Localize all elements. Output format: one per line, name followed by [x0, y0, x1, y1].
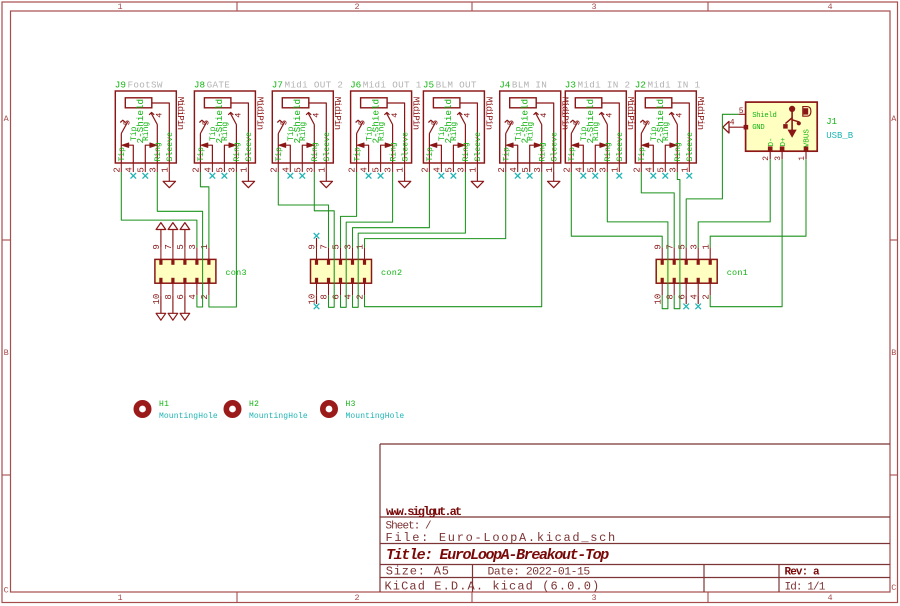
svg-text:3: 3 [457, 167, 467, 172]
wire J9 pin2 to con3 pin3 [121, 172, 197, 248]
frame column ticks bottom [236, 592, 238, 603]
svg-text:2: 2 [354, 593, 359, 603]
J8 no-connect pin 4 [210, 173, 216, 179]
J2 ring contact lever pin 3 [676, 125, 678, 163]
svg-text:1: 1 [396, 167, 406, 172]
svg-text:2: 2 [112, 167, 122, 172]
svg-text:Ring: Ring [154, 142, 163, 161]
svg-text:MountingHole: MountingHole [249, 412, 308, 421]
svg-text:Ring: Ring [674, 142, 683, 161]
connector J3 MidiPin (Midi IN 2) body [565, 91, 626, 163]
J6 ring contact lever pin 3 [392, 125, 394, 163]
wire J4 pin2 to con2 pin1 [365, 172, 506, 248]
J1 pin 5 Shield lead [739, 113, 746, 115]
ground symbol at J8 pin 1 [247, 172, 249, 181]
svg-text:MidiPin: MidiPin [625, 97, 636, 130]
svg-text:4: 4 [390, 113, 400, 118]
svg-text:4: 4 [509, 167, 519, 172]
con1 pin nubs [661, 259, 664, 264]
svg-text:J8: J8 [194, 80, 205, 91]
svg-text:5: 5 [656, 167, 666, 172]
con3 pin nubs [159, 259, 162, 264]
connector J2 MidiPin (Midi IN 1) body [635, 91, 696, 163]
con3 open-ended top pins 9 7 5 [160, 230, 162, 248]
svg-text:Sleeve: Sleeve [244, 132, 254, 162]
svg-text:MidiPin: MidiPin [175, 97, 186, 130]
con1 bottom pin stubs [661, 283, 663, 295]
J8 no-connect pin 5 [222, 173, 228, 179]
svg-text:con1: con1 [727, 268, 748, 278]
svg-text:GATE: GATE [207, 80, 231, 91]
svg-text:Id: 1/1: Id: 1/1 [785, 581, 826, 593]
J5 no-connect pin 4 [439, 173, 445, 179]
svg-text:MountingHole: MountingHole [346, 412, 405, 421]
svg-text:4: 4 [281, 167, 291, 172]
J2 sleeve internal wire pin 1 [672, 103, 689, 163]
J6 ring switch arm pin 5 [381, 145, 386, 162]
svg-text:Title: EuroLoopA-Breakout-Top: Title: EuroLoopA-Breakout-Top [386, 547, 609, 564]
svg-text:5: 5 [445, 167, 455, 172]
svg-text:C: C [4, 586, 9, 596]
J1 USB-B plug icon [803, 107, 811, 117]
wire J7 pin3 to con2 pin8 [314, 172, 334, 307]
J5 tip contact lever pin 2 [428, 134, 430, 163]
svg-text:GND: GND [752, 124, 764, 132]
ground symbol at J7 pin 1 [325, 172, 327, 181]
svg-text:2: 2 [562, 167, 572, 172]
svg-text:Tip: Tip [353, 147, 362, 162]
svg-text:Tip: Tip [426, 147, 435, 162]
svg-text:A: A [4, 114, 10, 124]
J5 tip switch arm pin 4 [436, 145, 441, 162]
svg-text:File: Euro-LoopA.kicad_sch: File: Euro-LoopA.kicad_sch [386, 531, 617, 545]
svg-text:J3: J3 [565, 80, 576, 91]
svg-text:4: 4 [730, 119, 735, 128]
svg-text:Ring: Ring [450, 122, 459, 141]
svg-text:5: 5 [216, 167, 226, 172]
con2 bottom pin stubs [316, 283, 318, 295]
svg-text:Midi IN 1: Midi IN 1 [648, 80, 701, 91]
svg-text:1: 1 [160, 167, 170, 172]
svg-text:4: 4 [605, 113, 615, 118]
con2 no-connect pin 9 [314, 233, 320, 239]
con2 pin nubs [315, 259, 318, 264]
J3 pin stubs [570, 163, 572, 172]
con1 top pin stubs [661, 248, 663, 260]
wire J3 pin3 to con1 pin10 [607, 172, 668, 309]
svg-text:A: A [891, 114, 897, 124]
svg-text:4: 4 [463, 113, 473, 118]
svg-text:J5: J5 [423, 80, 434, 91]
J5 pin stubs [428, 163, 430, 172]
ground symbol at J5 pin 1 [476, 172, 478, 181]
svg-text:5: 5 [279, 120, 289, 125]
svg-text:4: 4 [574, 167, 584, 172]
J7 ring contact lever pin 3 [313, 125, 315, 163]
svg-text:4: 4 [124, 167, 134, 172]
svg-text:MidiPin: MidiPin [695, 97, 706, 130]
J8 sleeve internal wire pin 1 [231, 103, 248, 163]
svg-text:Ring: Ring [604, 142, 613, 161]
svg-text:5: 5 [507, 120, 517, 125]
svg-text:5: 5 [122, 120, 132, 125]
svg-text:1: 1 [117, 593, 122, 603]
svg-text:1: 1 [610, 167, 620, 172]
svg-text:3: 3 [384, 167, 394, 172]
svg-text:Sleeve: Sleeve [685, 132, 695, 162]
J2 no-connect pin 5 [663, 173, 669, 179]
svg-text:H2: H2 [249, 400, 259, 409]
connector J6 MidiPin (Midi OUT 1) body [351, 91, 412, 163]
svg-text:4: 4 [644, 167, 654, 172]
svg-text:Shield: Shield [752, 112, 776, 120]
wire J1 D- to con1 pin3 [698, 159, 770, 247]
J3 ring contact lever pin 3 [606, 125, 608, 163]
svg-text:USB_B: USB_B [826, 131, 854, 141]
svg-text:J9: J9 [115, 80, 126, 91]
svg-text:www.siglgut.at: www.siglgut.at [386, 505, 462, 519]
con1 no-connect pin 6 [683, 304, 689, 310]
wire J1 Shield to con1 pin5 [686, 114, 738, 247]
J3 ring switch arm pin 5 [595, 145, 600, 162]
wire J4 pin3 to con2 pin2 [365, 172, 542, 307]
ground symbol at J4 pin 1 [553, 172, 555, 181]
wire J6 pin3 to con2 pin6 [341, 172, 393, 307]
wire J3 pin2 to con1 pin9 [571, 172, 662, 248]
svg-text:J1: J1 [826, 117, 837, 127]
connector con3 body [155, 259, 216, 283]
svg-text:MidiPin: MidiPin [254, 97, 265, 130]
svg-text:J7: J7 [272, 80, 283, 91]
svg-text:Ring: Ring [662, 122, 671, 141]
connector J9 MidiPin (FootSW) body [115, 91, 176, 163]
svg-text:4: 4 [312, 113, 322, 118]
svg-text:MidiPin: MidiPin [332, 97, 343, 130]
J6 no-connect pin 5 [378, 173, 384, 179]
svg-text:3: 3 [305, 167, 315, 172]
con3 bottom pin stubs [160, 283, 162, 295]
svg-text:3: 3 [591, 2, 596, 12]
J5 ring switch arm pin 5 [453, 145, 458, 162]
svg-text:4: 4 [539, 113, 549, 118]
svg-text:2: 2 [497, 167, 507, 172]
connector J8 MidiPin (GATE) body [194, 91, 255, 163]
J9 shield bar [125, 98, 152, 108]
svg-text:5: 5 [642, 120, 652, 125]
J8 tip contact lever pin 2 [199, 134, 201, 163]
svg-text:3: 3 [533, 167, 543, 172]
connector J5 MidiPin (BLM OUT) body [423, 91, 484, 163]
J4 tip switch arm pin 4 [513, 145, 518, 162]
mounting hole H3 [323, 403, 335, 415]
J3 no-connect pin 5 [593, 173, 599, 179]
svg-text:Tip: Tip [118, 147, 127, 162]
J4 ring switch arm pin 5 [530, 145, 535, 162]
svg-text:Rev: a: Rev: a [785, 566, 821, 578]
connector J4 MidiPin (BLM IN) body [500, 91, 561, 163]
wire J5 pin3 to con2 pin4 [353, 172, 466, 307]
svg-text:3: 3 [598, 167, 608, 172]
svg-text:2: 2 [632, 167, 642, 172]
svg-text:5: 5 [136, 167, 146, 172]
J7 sleeve internal wire pin 1 [309, 103, 326, 163]
svg-text:3: 3 [228, 167, 238, 172]
svg-text:4: 4 [675, 113, 685, 118]
J3 no-connect pin 1 [617, 173, 623, 179]
svg-text:1: 1 [680, 167, 690, 172]
J6 no-connect pin 4 [366, 173, 372, 179]
svg-text:2: 2 [421, 167, 431, 172]
wire J9 pin3 to con3 pin4 [157, 172, 202, 307]
J7 no-connect pin 5 [300, 173, 306, 179]
ground symbol at J6 pin 1 [404, 172, 406, 181]
frame column ticks top [236, 2, 238, 11]
svg-text:Ring: Ring [377, 122, 386, 141]
svg-text:4: 4 [360, 167, 370, 172]
J6 sleeve internal wire pin 1 [387, 103, 404, 163]
svg-text:Tip: Tip [275, 147, 284, 162]
wire J2 pin3 to con1 pin8 [674, 172, 680, 309]
svg-text:con2: con2 [381, 268, 402, 278]
con3 open-ended bottom pins 10 8 6 [160, 295, 162, 313]
J1 USB trident icon [783, 106, 801, 138]
J2 tip switch arm pin 4 [648, 145, 653, 162]
connector J7 MidiPin (Midi OUT 2) body [272, 91, 333, 163]
svg-text:4: 4 [155, 113, 165, 118]
J6 pin stubs [356, 163, 358, 172]
J4 pin stubs [505, 163, 507, 172]
con1 pin 6 lead [685, 295, 687, 304]
con3 top pin stubs [160, 248, 162, 260]
svg-text:2: 2 [269, 167, 279, 172]
svg-text:Sleeve: Sleeve [322, 132, 332, 162]
J4 no-connect pin 4 [515, 173, 521, 179]
wire J1 D+ to con1 pin2 [710, 159, 782, 307]
J9 pin stubs [120, 163, 122, 172]
svg-text:Sleeve: Sleeve [615, 132, 625, 162]
J6 tip contact lever pin 2 [356, 134, 358, 163]
svg-text:MidiPin: MidiPin [483, 97, 494, 130]
J7 pin stubs [277, 163, 279, 172]
con2 pin 10 lead [316, 295, 318, 304]
svg-text:1: 1 [317, 167, 327, 172]
J7 tip switch arm pin 4 [285, 145, 290, 162]
svg-text:4: 4 [204, 167, 214, 172]
svg-text:MountingHole: MountingHole [159, 412, 218, 421]
J4 sleeve internal wire pin 1 [537, 103, 554, 163]
J4 shield bar [510, 98, 537, 108]
connector J1 USB_B body [746, 102, 818, 151]
svg-text:5: 5 [201, 120, 211, 125]
svg-text:5: 5 [521, 167, 531, 172]
svg-text:5: 5 [586, 167, 596, 172]
title block row lines [380, 516, 890, 518]
title block column lines [472, 565, 474, 593]
svg-text:FootSW: FootSW [128, 80, 163, 91]
svg-text:2: 2 [192, 167, 202, 172]
svg-text:Midi IN 2: Midi IN 2 [578, 80, 631, 91]
svg-text:5: 5 [358, 120, 368, 125]
J7 shield bar [282, 98, 309, 108]
svg-text:D+: D+ [780, 137, 788, 147]
J5 shield bar [433, 98, 460, 108]
wire J2 pin2 to con1 pin7 [641, 172, 674, 248]
svg-text:H3: H3 [346, 400, 356, 409]
frame row ticks right [890, 239, 898, 241]
svg-text:Sleeve: Sleeve [400, 132, 410, 162]
svg-text:3: 3 [591, 593, 596, 603]
J5 ring contact lever pin 3 [464, 125, 466, 163]
svg-text:Ring: Ring [592, 122, 601, 141]
con1 no-connect pin 4 [695, 304, 701, 310]
J9 tip switch arm pin 4 [128, 145, 133, 162]
svg-text:Ring: Ring [221, 122, 230, 141]
J6 shield bar [361, 98, 388, 108]
svg-text:Ring: Ring [233, 142, 242, 161]
mounting hole H2 [226, 403, 238, 415]
svg-text:Tip: Tip [638, 147, 647, 162]
con2 no-connect pin 10 [314, 304, 320, 310]
wire J8 pin3 to con3 pin2 [209, 172, 237, 307]
svg-text:2: 2 [354, 2, 359, 12]
J9 ring contact lever pin 3 [156, 125, 158, 163]
svg-text:Ring: Ring [462, 142, 471, 161]
J3 shield bar [575, 98, 602, 108]
J2 tip contact lever pin 2 [640, 134, 642, 163]
svg-text:J6: J6 [350, 80, 361, 91]
svg-text:B: B [4, 348, 9, 358]
svg-text:J2: J2 [635, 80, 646, 91]
svg-text:4: 4 [827, 593, 832, 603]
svg-text:Ring: Ring [526, 122, 535, 141]
J3 sleeve internal wire pin 1 [602, 103, 619, 163]
J8 ring contact lever pin 3 [235, 125, 237, 163]
J1 pin 4 GND lead with input arrow [729, 126, 746, 128]
J8 ring switch arm pin 5 [224, 145, 229, 162]
J3 tip contact lever pin 2 [570, 134, 572, 163]
con2 top pin stubs [316, 248, 318, 260]
svg-text:3: 3 [668, 167, 678, 172]
J1 bottom pin leads 2 3 1 [769, 151, 771, 159]
svg-text:Sleeve: Sleeve [549, 132, 559, 162]
connector con2 body [311, 259, 372, 283]
J2 no-connect pin 4 [651, 173, 657, 179]
svg-text:Ring: Ring [311, 142, 320, 161]
J9 sleeve internal wire pin 1 [152, 103, 169, 163]
J4 no-connect pin 5 [527, 173, 533, 179]
svg-text:Sleeve: Sleeve [473, 132, 483, 162]
svg-text:B: B [891, 348, 896, 358]
svg-text:Tip: Tip [502, 147, 511, 162]
svg-text:1: 1 [240, 167, 250, 172]
frame row ticks left [2, 239, 11, 241]
J2 shield bar [645, 98, 672, 108]
svg-text:D-: D- [768, 137, 776, 146]
svg-text:Ring: Ring [389, 142, 398, 161]
J7 no-connect pin 4 [288, 173, 294, 179]
J3 no-connect pin 4 [581, 173, 587, 179]
svg-text:Size: A5: Size: A5 [386, 564, 450, 578]
svg-text:5: 5 [430, 120, 440, 125]
svg-text:1: 1 [117, 2, 122, 12]
svg-text:1: 1 [469, 167, 479, 172]
wire J8 pin2 to con3 pin1 [200, 172, 209, 248]
svg-text:4: 4 [433, 167, 443, 172]
ground symbol at J9 pin 1 [168, 172, 170, 181]
J7 ring switch arm pin 5 [302, 145, 307, 162]
mounting hole H1 [136, 403, 148, 415]
J8 tip switch arm pin 4 [207, 145, 212, 162]
connector con1 body [656, 259, 717, 283]
J9 tip contact lever pin 2 [120, 134, 122, 163]
svg-text:MidiPin: MidiPin [411, 97, 422, 130]
svg-text:Midi OUT 2: Midi OUT 2 [285, 80, 344, 91]
J5 no-connect pin 5 [451, 173, 457, 179]
svg-text:KiCad E.D.A. kicad (6.0.0): KiCad E.D.A. kicad (6.0.0) [385, 579, 601, 593]
svg-text:5: 5 [372, 167, 382, 172]
svg-text:VBUS: VBUS [804, 129, 812, 148]
svg-text:Midi OUT 1: Midi OUT 1 [363, 80, 422, 91]
J8 pin stubs [199, 163, 201, 172]
J6 tip switch arm pin 4 [364, 145, 369, 162]
wire J6 pin2 to con2 pin5 [341, 172, 357, 248]
J9 no-connect pin 4 [131, 173, 137, 179]
J9 ring switch arm pin 5 [145, 145, 150, 162]
con1 pin 4 lead [697, 295, 699, 304]
svg-text:Ring: Ring [299, 122, 308, 141]
J8 shield bar [204, 98, 231, 108]
svg-text:Tip: Tip [568, 147, 577, 162]
svg-text:Ring: Ring [538, 142, 547, 161]
svg-text:5: 5 [293, 167, 303, 172]
svg-text:BLM OUT: BLM OUT [436, 80, 477, 91]
J4 tip contact lever pin 2 [505, 134, 507, 163]
J4 ring contact lever pin 3 [541, 125, 543, 163]
svg-text:3: 3 [148, 167, 158, 172]
svg-text:Date: 2022-01-15: Date: 2022-01-15 [488, 566, 591, 578]
svg-text:4: 4 [234, 113, 244, 118]
svg-text:H1: H1 [159, 400, 169, 409]
svg-text:2: 2 [348, 167, 358, 172]
wire J5 pin2 to con2 pin3 [353, 172, 430, 248]
J9 no-connect pin 5 [143, 173, 149, 179]
svg-text:J4: J4 [499, 80, 511, 91]
J3 tip switch arm pin 4 [578, 145, 583, 162]
title block outline [379, 444, 381, 592]
wire J7 pin2 to con2 pin7 [278, 172, 328, 248]
svg-text:BLM IN: BLM IN [512, 80, 547, 91]
svg-text:C: C [891, 583, 896, 593]
wire J1 VBUS to con1 pin1 [710, 159, 806, 247]
svg-text:Ring: Ring [142, 122, 151, 141]
svg-text:1: 1 [545, 167, 555, 172]
con2 pin 9 lead [316, 238, 318, 248]
J2 no-connect pin 1 [687, 173, 693, 179]
J2 ring switch arm pin 5 [665, 145, 670, 162]
J5 sleeve internal wire pin 1 [460, 103, 477, 163]
svg-text:5: 5 [572, 120, 582, 125]
svg-text:Tip: Tip [197, 147, 206, 162]
svg-text:4: 4 [827, 2, 832, 12]
J7 tip contact lever pin 2 [277, 134, 279, 163]
svg-text:Sleeve: Sleeve [165, 132, 175, 162]
svg-text:5: 5 [739, 107, 744, 116]
J2 pin stubs [640, 163, 642, 172]
